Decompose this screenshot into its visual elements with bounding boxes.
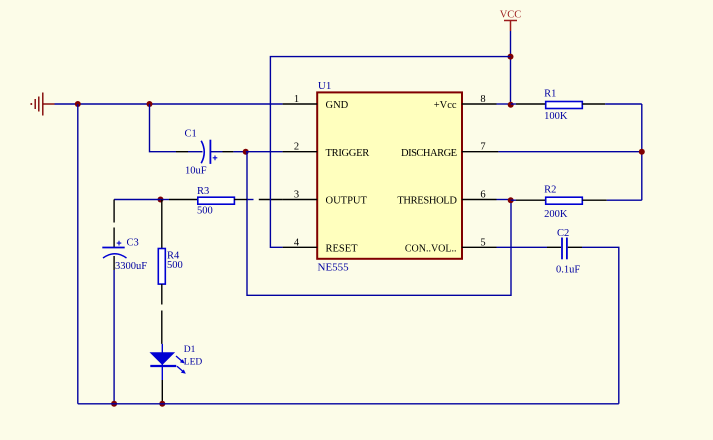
- svg-text:5: 5: [480, 237, 485, 248]
- svg-text:C1: C1: [185, 129, 197, 140]
- wire C1 branch down and right: [150, 104, 177, 152]
- capacitor C1: [201, 140, 217, 164]
- wire top rail to reset: [270, 57, 510, 248]
- node H junction dot pin8: [508, 102, 514, 108]
- capacitor C1 lead left: [176, 151, 188, 153]
- wire left vertical down to bottom rail: [77, 104, 79, 404]
- power VCC: [500, 10, 522, 32]
- node D junction dot R3 top: [158, 197, 164, 203]
- svg-text:10uF: 10uF: [185, 166, 207, 177]
- svg-text:TRIGGER: TRIGGER: [326, 148, 370, 159]
- svg-text:C3: C3: [127, 238, 139, 249]
- node F junction dot LED bottom: [159, 401, 165, 407]
- svg-text:2: 2: [294, 142, 299, 153]
- svg-text:R1: R1: [544, 89, 556, 100]
- svg-text:4: 4: [294, 237, 300, 248]
- svg-text:C2: C2: [557, 228, 569, 239]
- ground: [30, 93, 54, 116]
- svg-text:3: 3: [294, 190, 299, 201]
- svg-text:DISCHARGE: DISCHARGE: [401, 148, 457, 159]
- pin 6 THRESHOLD: [462, 199, 497, 201]
- svg-text:8: 8: [480, 94, 485, 105]
- svg-text:RESET: RESET: [326, 244, 359, 255]
- svg-text:3300uF: 3300uF: [115, 261, 147, 272]
- node I junction dot discharge: [639, 149, 645, 155]
- pin 3 OUTPUT: [283, 199, 318, 201]
- node C junction dot trigger: [243, 149, 249, 155]
- pin 1 GND: [283, 103, 318, 105]
- node G junction dot VCC top rail: [508, 54, 514, 60]
- pin 7 DISCHARGE: [462, 151, 499, 153]
- wire ground to pin1 GND: [55, 103, 283, 105]
- svg-text:CON..VOL..: CON..VOL..: [405, 244, 457, 255]
- svg-text:+Vcc: +Vcc: [434, 100, 457, 111]
- wire C2 to bottom rail: [582, 247, 619, 403]
- pin 8 +Vcc: [462, 103, 497, 105]
- wire bottom ground rail: [78, 403, 619, 405]
- svg-text:D1: D1: [184, 345, 196, 355]
- svg-text:GND: GND: [326, 100, 349, 111]
- svg-text:R2: R2: [544, 185, 556, 196]
- pin 4 RESET: [283, 246, 318, 248]
- svg-text:100K: 100K: [544, 111, 568, 122]
- capacitor C3: [102, 200, 126, 404]
- pin 2 TRIGGER: [283, 151, 318, 153]
- svg-text:1: 1: [294, 94, 299, 105]
- svg-text:VCC: VCC: [500, 10, 522, 21]
- diode D1 LED: [150, 344, 186, 404]
- node E junction dot C3 bottom: [111, 401, 117, 407]
- wire pin5 to C2: [497, 246, 548, 248]
- capacitor C2 lead right: [568, 246, 582, 248]
- wire R3 junction to C3: [114, 199, 160, 201]
- capacitor C2: [562, 238, 567, 260]
- wire trigger junction to pin2: [246, 151, 283, 153]
- svg-text:NE555: NE555: [318, 262, 350, 274]
- resistor R1: [511, 102, 642, 109]
- svg-text:7: 7: [480, 142, 485, 153]
- pin 5 CON.VOL: [462, 246, 497, 248]
- svg-text:U1: U1: [318, 80, 331, 92]
- capacitor C1 lead right: [211, 151, 223, 153]
- resistor R3: [161, 197, 254, 204]
- wire trigger-threshold link: [247, 152, 511, 296]
- svg-text:R3: R3: [197, 186, 209, 197]
- svg-text:0.1uF: 0.1uF: [556, 265, 580, 276]
- wire pin7 to right vertical: [498, 151, 641, 153]
- svg-text:LED: LED: [184, 357, 203, 367]
- node J junction dot threshold: [508, 197, 514, 203]
- node A junction dot left vertical: [75, 101, 81, 107]
- svg-text:6: 6: [480, 190, 485, 201]
- node B junction dot C1 branch: [147, 101, 153, 107]
- wire right vertical R1 to R2: [641, 104, 643, 200]
- svg-text:OUTPUT: OUTPUT: [326, 196, 368, 207]
- resistor R2: [511, 197, 642, 204]
- svg-text:500: 500: [167, 260, 183, 271]
- resistor R4: [158, 200, 165, 344]
- wire pin3 output stub extension: [259, 199, 283, 201]
- wire VCC stem down: [510, 31, 512, 105]
- op-amp U1 NE555 body: [317, 92, 462, 258]
- svg-text:500: 500: [197, 206, 213, 217]
- svg-text:THRESHOLD: THRESHOLD: [397, 196, 457, 207]
- svg-text:200K: 200K: [544, 209, 568, 220]
